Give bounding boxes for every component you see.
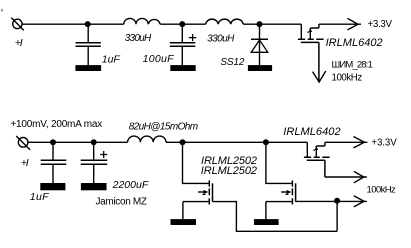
svg-text:SS12: SS12 (220, 57, 244, 68)
svg-text:+100mV, 200mA max: +100mV, 200mA max (10, 119, 102, 130)
svg-text:+I: +I (21, 157, 29, 169)
svg-text:330uH: 330uH (125, 33, 152, 44)
svg-text:IRLML6402: IRLML6402 (326, 37, 383, 49)
svg-text:100kHz: 100kHz (332, 72, 363, 83)
svg-text:+3.3V: +3.3V (368, 19, 393, 30)
svg-text:82uH@15mOhm: 82uH@15mOhm (129, 121, 198, 132)
svg-text:330uH: 330uH (207, 34, 235, 45)
svg-text:2200uF: 2200uF (112, 179, 149, 191)
svg-text:100kHz: 100kHz (367, 185, 397, 196)
svg-text:+3.3V: +3.3V (371, 138, 397, 149)
svg-text:100uF: 100uF (143, 53, 175, 65)
svg-text:1uF: 1uF (102, 53, 121, 65)
svg-text:IRLML6402: IRLML6402 (283, 126, 340, 138)
svg-text:Jamicon MZ: Jamicon MZ (96, 196, 148, 207)
svg-text:+I: +I (15, 37, 23, 49)
svg-text:1uF: 1uF (30, 191, 49, 203)
svg-text:ШИМ_28:1: ШИМ_28:1 (332, 59, 373, 70)
svg-text:IRLML2502: IRLML2502 (201, 165, 257, 177)
